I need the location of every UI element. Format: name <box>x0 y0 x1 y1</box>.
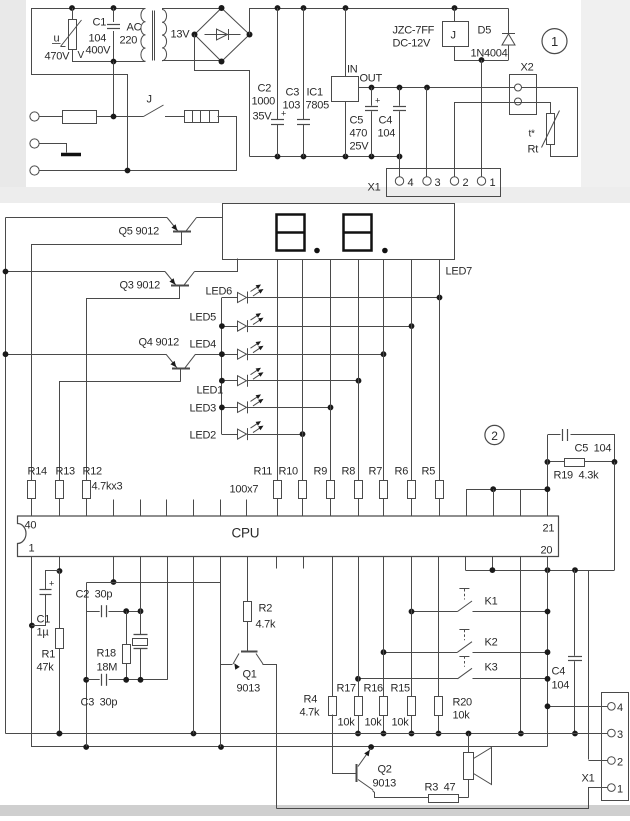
svg-text:C5 104: C5 104 <box>575 443 612 455</box>
svg-text:7805: 7805 <box>306 100 330 112</box>
svg-text:4: 4 <box>408 177 414 189</box>
pin stub top x166.5 <box>166 500 168 517</box>
node bridge right <box>247 32 253 38</box>
svg-text:K2: K2 <box>485 637 498 649</box>
svg-text:18M: 18M <box>97 662 118 674</box>
wire Q1 collector down <box>263 665 277 809</box>
figure label 1 <box>542 29 567 54</box>
svg-text:u: u <box>54 33 60 45</box>
crystal Y1 <box>140 611 142 634</box>
capacitor C4 104 <box>399 88 401 106</box>
wire +5V to X1 pin3 <box>426 88 428 178</box>
bridge rectifier D1-D4 <box>195 8 250 62</box>
svg-text:J: J <box>147 94 152 106</box>
svg-text:470V: 470V <box>45 51 71 63</box>
wire down to fuse node <box>113 62 115 117</box>
wire X2 pin2 line <box>455 103 551 114</box>
svg-text:C5: C5 <box>350 115 364 127</box>
svg-text:R13: R13 <box>56 466 76 478</box>
svg-text:9013: 9013 <box>373 778 397 790</box>
svg-text:X1: X1 <box>582 773 595 785</box>
display module 2-digit <box>223 204 455 260</box>
svg-text:21: 21 <box>543 523 555 535</box>
resistor R6 <box>411 260 413 481</box>
svg-text:1: 1 <box>490 177 496 189</box>
wire K1 right <box>473 611 548 613</box>
speaker LS <box>468 780 470 798</box>
svg-text:20: 20 <box>541 545 553 557</box>
LED anode bus <box>221 298 223 435</box>
wire Q5 base to R14 <box>32 245 182 481</box>
capacitor C1 1u <box>46 571 60 590</box>
resistor R10 <box>302 260 304 481</box>
svg-text:V: V <box>78 50 85 61</box>
svg-text:t*: t* <box>529 129 536 140</box>
svg-text:10k: 10k <box>453 710 471 722</box>
wire R19 right vert down <box>614 462 616 570</box>
svg-text:2: 2 <box>491 429 498 443</box>
capacitor C3 103 <box>303 8 305 120</box>
wire K3 left <box>358 678 458 680</box>
svg-text:3: 3 <box>617 729 623 741</box>
svg-text:Q4 9012: Q4 9012 <box>139 337 180 349</box>
svg-text:R11: R11 <box>254 466 273 478</box>
svg-text:R6: R6 <box>395 466 409 478</box>
resistor R20 10k <box>438 557 440 697</box>
pin stub top x219.5 <box>220 500 222 517</box>
LED LED6 <box>222 297 238 299</box>
svg-text:X2: X2 <box>521 62 534 74</box>
pin stub top x193 <box>193 500 195 517</box>
wire Q4 base to R13 <box>60 382 181 481</box>
svg-text:LED4: LED4 <box>190 339 217 351</box>
transistor Q5 9012 body <box>173 231 191 233</box>
svg-text:LED2: LED2 <box>190 430 217 442</box>
wire XTAL2 pin <box>167 557 169 680</box>
node Q3 emitter tap <box>3 269 9 275</box>
svg-text:C1: C1 <box>93 17 107 29</box>
transformer core <box>152 11 154 61</box>
svg-text:4: 4 <box>617 702 623 714</box>
node IC1 IN top <box>343 5 349 11</box>
wire K3 right <box>473 678 548 680</box>
node fuse-C1 tap <box>111 114 117 120</box>
svg-text:Rt: Rt <box>528 144 539 156</box>
node Q4 emitter tap <box>3 351 9 357</box>
terminal circles AC input <box>30 112 39 121</box>
svg-text:2: 2 <box>617 757 623 769</box>
svg-text:R4: R4 <box>304 694 318 706</box>
wire +5V OUT rail <box>359 87 578 89</box>
resistor R1 47k <box>59 571 61 629</box>
wire K1 left <box>412 611 458 613</box>
transistor Q1 9013 <box>241 651 258 653</box>
LED LED3 <box>222 407 238 409</box>
transistor Q2 9013 <box>356 764 358 782</box>
digit 8 right <box>344 215 372 251</box>
resistor R18 18M <box>126 611 128 644</box>
+5V left bus <box>5 218 7 734</box>
wire Q4 collector to LED bus <box>196 354 222 356</box>
svg-text:C2: C2 <box>258 83 272 95</box>
wire CPU pin1 down <box>31 557 33 748</box>
LED LED2 <box>222 434 238 436</box>
resistor R2 4.7k <box>247 557 249 602</box>
svg-text:R1: R1 <box>42 649 56 661</box>
svg-text:R19 4.3k: R19 4.3k <box>554 470 600 482</box>
wire gnd to X1 pin4 <box>399 157 401 178</box>
heating element <box>185 111 219 123</box>
wire - rail to ground rail <box>195 35 250 157</box>
figure label 2 <box>485 425 504 444</box>
connector X1 bottom <box>602 693 629 801</box>
svg-text:Q3 9012: Q3 9012 <box>120 280 161 292</box>
svg-text:K1: K1 <box>485 596 498 608</box>
resistor R3 47 <box>429 795 459 803</box>
VCC to X1.3 <box>602 733 608 735</box>
node relay top <box>452 5 458 11</box>
svg-text:35V: 35V <box>253 111 273 123</box>
svg-text:R20: R20 <box>453 697 473 709</box>
svg-text:1: 1 <box>551 34 558 49</box>
key switch K1 <box>459 588 469 590</box>
svg-text:X1: X1 <box>368 182 381 194</box>
svg-text:100x7: 100x7 <box>230 484 259 496</box>
svg-text:4.7kx3: 4.7kx3 <box>92 481 123 493</box>
svg-text:400V: 400V <box>86 45 112 57</box>
svg-text:R3 47: R3 47 <box>425 782 456 794</box>
svg-text:C4: C4 <box>379 115 393 127</box>
wire Q3 base to R12 <box>87 299 180 481</box>
wire X1.1 loop to Q1 <box>277 788 608 809</box>
wire RST pin <box>59 557 61 572</box>
svg-text:1N4004: 1N4004 <box>471 48 508 60</box>
svg-text:13V: 13V <box>171 29 191 41</box>
diode D5 1N4004 <box>508 9 510 34</box>
wire Q3 emitter <box>6 271 166 273</box>
wire K2 right <box>473 652 548 654</box>
capacitor C4 104 (section2) <box>574 570 576 656</box>
svg-text:2: 2 <box>463 177 469 189</box>
resistor R8 <box>358 260 360 481</box>
svg-text:C2 30p: C2 30p <box>76 589 113 601</box>
wire speaker to VCC <box>468 734 470 753</box>
svg-text:OUT: OUT <box>360 73 383 85</box>
resistor R16 10k <box>383 557 385 697</box>
svg-text:Q5 9012: Q5 9012 <box>119 226 160 238</box>
svg-text:CPU: CPU <box>232 526 260 541</box>
svg-text:Q2: Q2 <box>378 764 392 776</box>
capacitor C2 1000/35V <box>277 8 279 120</box>
transistor Q3 9012 body <box>171 285 189 287</box>
LED LED1 <box>222 380 238 382</box>
resistor R19 4.3k <box>547 461 565 463</box>
svg-text:C1: C1 <box>37 614 51 626</box>
pin20/21 line below CPU <box>465 570 614 572</box>
wire relay to X1 pin1 <box>481 60 483 177</box>
svg-text:10k: 10k <box>338 717 356 729</box>
node C2 top <box>275 5 281 11</box>
svg-text:470: 470 <box>350 128 368 140</box>
key switch K3 <box>459 656 469 658</box>
resistor R12 <box>83 481 91 499</box>
wire Q5 collector to display <box>197 217 223 219</box>
svg-text:R2: R2 <box>259 603 273 615</box>
resistor R4 4.7k <box>332 557 334 697</box>
wire varistor-C1-primary bottom <box>72 61 146 63</box>
svg-text:DC-12V: DC-12V <box>393 38 432 50</box>
node D5-X1.1 junction <box>479 57 485 63</box>
wire X2 pin2 to X1 pin2 <box>454 102 456 177</box>
svg-text:104: 104 <box>378 128 396 140</box>
svg-text:1µ: 1µ <box>37 627 50 639</box>
svg-text:C4: C4 <box>552 666 566 678</box>
svg-text:LED6: LED6 <box>206 286 233 298</box>
pin stub bottom x276 <box>276 557 278 569</box>
svg-text:R5: R5 <box>422 466 436 478</box>
pin stub bottom x303.3 <box>303 557 305 569</box>
svg-text:40: 40 <box>25 520 37 532</box>
node varistor top <box>69 5 75 11</box>
node C3 top <box>301 5 307 11</box>
svg-text:R8: R8 <box>342 466 356 478</box>
svg-text:4.7k: 4.7k <box>256 619 277 631</box>
svg-text:R18: R18 <box>97 648 117 660</box>
svg-text:9013: 9013 <box>237 683 261 695</box>
svg-text:1: 1 <box>617 784 623 796</box>
svg-text:D5: D5 <box>478 25 492 37</box>
wire Q2 collector to R3 <box>373 791 429 798</box>
svg-text:1000: 1000 <box>252 96 276 108</box>
pin stub top x140 <box>140 500 142 517</box>
LED LED5 <box>222 326 238 328</box>
svg-text:LED7: LED7 <box>446 266 473 278</box>
wire VSS/Q1-emitter vertical <box>220 557 222 748</box>
transformer T primary AC 220 <box>141 9 146 62</box>
wire Q1 emitter to gnd <box>221 664 233 666</box>
svg-text:+: + <box>49 579 54 589</box>
wire heater to N <box>218 117 237 171</box>
varistor u 470V <box>72 8 74 20</box>
resistor R13 <box>56 481 64 499</box>
wire Q3 collector to display pin <box>195 259 238 272</box>
wire secondary top to bridge <box>162 8 222 10</box>
svg-text:AC: AC <box>127 22 142 34</box>
capacitor C5 470/25V <box>371 88 373 106</box>
svg-text:LED1: LED1 <box>197 385 224 397</box>
resistor R14 <box>28 481 36 499</box>
wire CPU pin to VCC rail <box>520 557 522 734</box>
wire EA pin to VCC rail <box>193 557 195 734</box>
pin stub top x113 <box>113 500 115 517</box>
svg-text:Q1: Q1 <box>243 669 257 681</box>
fuse F <box>39 116 62 118</box>
LED LED4 <box>222 354 238 356</box>
svg-text:+: + <box>375 96 380 106</box>
transformer T secondary 13V <box>162 10 167 61</box>
resistor R17 10k <box>358 557 360 697</box>
svg-text:C3: C3 <box>286 87 300 99</box>
pin cluster line <box>466 489 547 491</box>
transistor Q4 9012 body <box>172 368 190 370</box>
svg-text:R15: R15 <box>391 683 411 695</box>
wire AC loop left/top <box>32 9 146 171</box>
wire X1.4 to gnd vert <box>548 706 608 708</box>
resistor R11 <box>277 260 279 481</box>
wire R19 left vert <box>547 435 549 462</box>
wire secondary bottom to bridge <box>162 60 222 62</box>
svg-text:R9: R9 <box>314 466 328 478</box>
wire + rail 13V <box>250 9 509 35</box>
resistor R5 <box>439 260 441 481</box>
svg-text:104: 104 <box>552 680 570 692</box>
key switch K2 <box>459 629 469 631</box>
svg-text:R14: R14 <box>28 466 48 478</box>
resistor R7 <box>383 260 385 481</box>
svg-text:4.7k: 4.7k <box>300 707 321 719</box>
svg-text:25V: 25V <box>350 141 370 153</box>
svg-text:10k: 10k <box>392 717 410 729</box>
svg-text:K3: K3 <box>485 662 498 674</box>
node N junction <box>125 168 131 174</box>
CPU box <box>18 516 559 557</box>
resistor R15 10k <box>411 557 413 697</box>
capacitor C1 104 400V <box>113 8 115 22</box>
wire gnd rail section1 <box>250 156 400 158</box>
node C1 bottom junction <box>111 59 117 65</box>
resistor R9 <box>330 260 332 481</box>
pin stub top x246 <box>246 500 248 517</box>
svg-text:R16: R16 <box>364 683 384 695</box>
svg-text:LED5: LED5 <box>190 312 217 324</box>
svg-text:R17: R17 <box>337 683 357 695</box>
node C1 top <box>111 5 117 11</box>
wire Q4 emitter <box>6 354 167 356</box>
svg-text:1: 1 <box>29 543 35 555</box>
wire GND rail <box>32 746 548 748</box>
wire xtal gnd vertical <box>86 583 88 747</box>
node bridge left <box>192 32 198 38</box>
svg-text:220: 220 <box>120 35 138 47</box>
svg-text:10k: 10k <box>365 717 383 729</box>
capacitor C5 104 (section2) <box>548 434 561 436</box>
wire N rail <box>39 170 237 172</box>
X1 pin2 vertical <box>588 571 590 760</box>
node bridge bottom <box>219 59 225 65</box>
svg-text:JZC-7FF: JZC-7FF <box>393 25 435 37</box>
svg-text:3: 3 <box>435 177 441 189</box>
svg-text:C3 30p: C3 30p <box>81 697 118 709</box>
node bridge top <box>219 5 225 11</box>
svg-text:47k: 47k <box>37 662 55 674</box>
wire Q5 emitter <box>6 217 168 219</box>
wire XTAL1 pin <box>140 557 142 612</box>
svg-text:LED3: LED3 <box>190 403 217 415</box>
wire VSS pin <box>113 557 115 583</box>
svg-text:R7: R7 <box>369 466 383 478</box>
wire K2 left <box>384 652 458 654</box>
wire X1.2 <box>589 760 608 762</box>
svg-text:104: 104 <box>89 33 107 45</box>
svg-text:R10: R10 <box>279 466 299 478</box>
earth ground <box>40 144 67 153</box>
svg-text:103: 103 <box>283 100 301 112</box>
svg-text:J: J <box>451 30 456 42</box>
regulator IC1 7805 <box>345 8 347 77</box>
digit 8 left <box>277 215 305 251</box>
wire VCC rail <box>6 733 602 735</box>
svg-text:IC1: IC1 <box>307 87 324 99</box>
svg-text:R12: R12 <box>83 466 103 478</box>
wire K common / pin20 vertical <box>547 557 549 747</box>
wire Rt loop right <box>537 88 578 157</box>
svg-text:IN: IN <box>347 64 358 76</box>
